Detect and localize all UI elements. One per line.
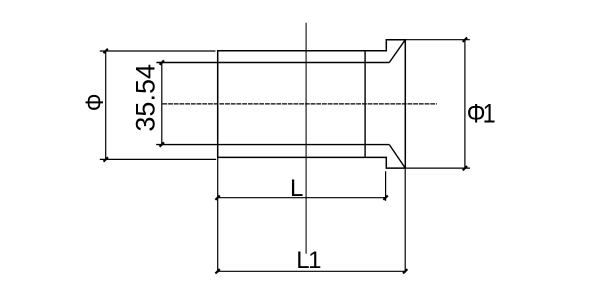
bore bottom line (also 35.54 extension) — [156, 144, 389, 146]
phi dimension extension line bottom — [100, 158, 216, 160]
phi dimension extension line top — [100, 50, 216, 52]
L1 left shared extension line (body left edge extended) — [217, 157, 219, 272]
svg-text:Φ: Φ — [81, 94, 108, 112]
L dim tick right — [383, 196, 387, 200]
flare chamfer bottom — [389, 145, 405, 169]
phi dimension line — [105, 51, 107, 159]
phi dim tick top — [104, 49, 108, 53]
phi1 dimension extension line bottom — [405, 167, 470, 169]
L dimension line — [218, 197, 386, 199]
L1 right extension line (flange face extended) — [404, 168, 406, 273]
phi dim tick bottom — [104, 157, 108, 161]
phi1 dimension line — [464, 40, 466, 169]
svg-text:L: L — [290, 175, 303, 202]
L dimension right extension line — [385, 171, 387, 201]
interior vertical seam line — [364, 51, 366, 158]
35.54 dim tick top — [160, 60, 164, 64]
horizontal center line (dashed) — [162, 103, 437, 105]
svg-text:L1: L1 — [296, 247, 321, 274]
35.54 dimension line — [161, 63, 163, 145]
L1 dim tick left — [215, 269, 219, 273]
35.54 dim tick bottom — [160, 142, 164, 146]
L1 dimension line — [218, 270, 406, 272]
part outline: flanged ferrule cross-section — [218, 40, 406, 168]
vertical center line — [305, 23, 307, 254]
phi1 dim tick top — [463, 38, 467, 42]
L1 dim tick right — [403, 269, 407, 273]
bore top line (also 35.54 extension) — [156, 62, 389, 64]
L dim tick left — [215, 196, 219, 200]
phi1 dimension extension line top — [405, 39, 470, 41]
flare chamfer top — [389, 40, 405, 63]
svg-text:35.54: 35.54 — [131, 64, 161, 132]
phi1 dim tick bottom — [463, 166, 467, 170]
svg-text:Φ1: Φ1 — [467, 99, 495, 129]
